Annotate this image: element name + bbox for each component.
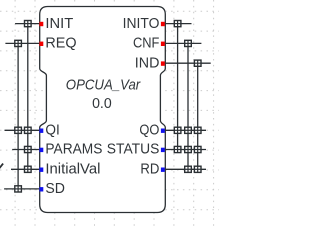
wire IND output [165,62,211,64]
svg-text:RD: RD [140,162,159,178]
data output pin STATUS [161,148,165,152]
svg-text:QO: QO [139,123,159,139]
junction SD/B [15,186,22,192]
junction INIT/A [25,21,32,27]
wire vertical branch A (INIT to InitialVal) [27,24,29,170]
wire vertical branch E (IND to RD) [197,63,199,169]
event output pin CNF [161,42,165,46]
junction QO/C [174,127,181,133]
clipped glyph at left edge [0,164,3,169]
junction RD/D [185,166,192,172]
svg-text:IND: IND [135,55,160,71]
data input pin PARAMS [39,148,43,152]
junction QI/B [15,127,22,133]
wire REQ input [5,42,40,44]
wire InitialVal input [11,168,40,170]
svg-text:INITO: INITO [123,16,160,32]
event output pin INITO [161,22,165,26]
junction REQ/B [15,40,22,46]
junction STATUS/C [174,146,181,152]
junction CNF/D [185,40,192,46]
data input pin InitialVal [39,168,43,172]
wire vertical branch B (REQ to SD) [17,43,19,189]
svg-text:INIT: INIT [45,16,73,32]
wire RD output [165,168,206,170]
data output pin RD [161,168,165,172]
svg-text:SD: SD [45,181,65,197]
junction STATUS/E [194,146,201,152]
wire INIT input [15,23,40,25]
wire QO output [165,129,206,131]
svg-text:0.0: 0.0 [92,96,112,112]
svg-text:OPCUA_Var: OPCUA_Var [66,76,141,93]
function block OPCUA_Var outline [40,7,166,213]
data input pin SD [39,187,43,191]
svg-text:STATUS: STATUS [107,142,160,158]
svg-text:InitialVal: InitialVal [45,162,100,178]
junction STATUS/D [185,146,192,152]
wire QI input [5,129,41,131]
junction QI/A [25,127,32,133]
junction QO/D [185,127,192,133]
wire PARAMS input [12,149,40,151]
svg-text:REQ: REQ [45,36,76,52]
junction RD/E [194,166,201,172]
data input pin QI [39,129,43,133]
wire vertical branch D (CNF to RD) [187,43,189,169]
event input pin INIT [39,22,43,26]
svg-text:PARAMS: PARAMS [45,142,102,158]
wire vertical branch C (INITO to STATUS) [177,24,179,150]
wire STATUS output [165,149,206,151]
junction INITO/C [174,21,181,27]
junction PARAMS/A [25,146,32,152]
wire CNF output [165,42,202,44]
junction QO/E [194,127,201,133]
event input pin REQ [39,42,43,46]
event output pin IND [161,61,165,65]
wire SD input [4,188,40,190]
svg-text:QI: QI [45,123,59,139]
junction InitialVal/A [25,166,32,172]
svg-text:CNF: CNF [133,36,160,52]
wire INITO output [165,23,192,25]
junction IND/E [194,60,201,66]
data output pin QO [161,129,165,133]
